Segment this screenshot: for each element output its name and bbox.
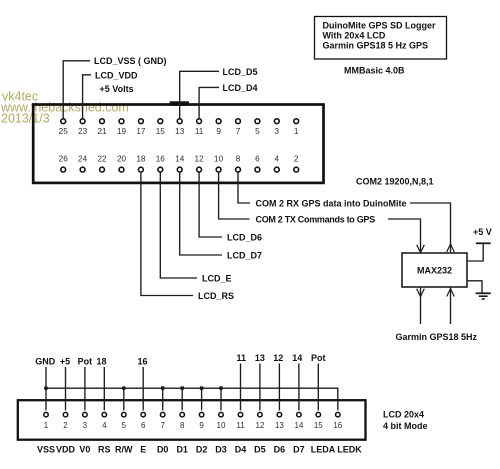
J1 pin number 16 <box>156 155 166 164</box>
J1 pin 22 pad <box>100 167 105 172</box>
J2 pin number 5 <box>122 421 127 430</box>
svg-text:LCD_D7: LCD_D7 <box>227 250 262 260</box>
svg-text:D4: D4 <box>235 445 247 455</box>
svg-text:LCD_D6: LCD_D6 <box>227 232 262 242</box>
junction dot at J2 pin8 (D1) <box>181 386 184 389</box>
junction dot at J2 pin1 <box>44 386 48 390</box>
label 18 (J2 pin 4) <box>96 356 106 366</box>
label V0 (J2 pin 3) <box>79 445 90 455</box>
J2 pin 5 pad <box>122 412 127 417</box>
title box <box>315 17 447 60</box>
J1 pin number 10 <box>214 155 224 164</box>
J1 pin 17 pad <box>139 119 144 124</box>
svg-text:7: 7 <box>236 127 241 136</box>
svg-text:Garmin GPS18 5Hz: Garmin GPS18 5Hz <box>396 332 478 342</box>
label 13 (J2 pin 12) <box>255 353 265 363</box>
wire label 13 to J2 pin 12 <box>259 364 261 411</box>
J2 pin 15 pad <box>316 412 321 417</box>
J2 pin 9 pad <box>199 412 204 417</box>
label MMBasic 4.0B <box>344 66 405 76</box>
J2 pin 2 pad <box>63 412 68 417</box>
label LEDK (J2 pin 16) <box>337 445 362 455</box>
wire J1 pin13 to LCD_D5 label <box>180 71 219 118</box>
connector J2 (LCD 20x4 16-pin) body <box>18 400 366 440</box>
J1 pin 15 pad <box>158 119 163 124</box>
label D7 (J2 pin 14) <box>293 445 305 455</box>
svg-text:+5 V: +5 V <box>473 227 492 237</box>
wire label GND to J2 pin 1 <box>45 367 47 410</box>
label LCD_D5 <box>223 67 258 77</box>
wire label 18 to J2 pin 4 <box>103 367 105 410</box>
svg-text:Pot: Pot <box>78 356 93 366</box>
label LCD_D6 <box>227 232 262 242</box>
J1 pin number 25 <box>59 127 69 136</box>
svg-text:1: 1 <box>294 127 299 136</box>
title text line 3 <box>323 41 429 51</box>
svg-text:Pot: Pot <box>311 353 326 363</box>
label LCD_VSS ( GND) <box>94 56 167 66</box>
arrowhead up (RX from GPS) <box>447 289 455 297</box>
J1 pin 21 pad <box>100 119 105 124</box>
J1 pin number 12 <box>195 155 205 164</box>
label E (J2 pin 6) <box>140 445 146 455</box>
svg-text:8: 8 <box>180 421 185 430</box>
svg-text:6: 6 <box>141 421 146 430</box>
label LCD_D7 <box>227 250 262 260</box>
svg-text:9: 9 <box>199 421 204 430</box>
J2 pin 4 pad <box>102 412 107 417</box>
arrowhead down (TX to GPS) <box>417 289 425 297</box>
svg-text:14: 14 <box>175 155 185 164</box>
label D3 (J2 pin 10) <box>215 445 227 455</box>
wire GPS data into MAX232 (up) <box>450 287 452 324</box>
svg-text:9: 9 <box>216 127 221 136</box>
wire label +5 to J2 pin 2 <box>65 367 67 410</box>
junction dot at J2 pin7 (D0) <box>161 386 164 389</box>
J1 pin number 18 <box>136 155 146 164</box>
label GND (J2 pin 1) <box>35 356 56 366</box>
J1 pin number 23 <box>78 127 88 136</box>
J1 pin number 15 <box>156 127 166 136</box>
J1 pin 18 pad <box>139 167 144 172</box>
svg-text:RS: RS <box>98 445 111 455</box>
wire J1 pin18 to LCD_RS label <box>141 172 193 295</box>
J1 pin number 19 <box>117 127 127 136</box>
wire J2 pin7 D0 to GND bus <box>162 388 164 410</box>
J1 pin number 1 <box>294 127 299 136</box>
arrowhead up (RX into DuinoMite) <box>447 244 455 252</box>
wire J2 pin10 D3 to GND bus <box>220 388 222 410</box>
svg-text:4 bit Mode: 4 bit Mode <box>383 421 428 431</box>
J1 pin 11 pad <box>197 119 202 124</box>
svg-text:15: 15 <box>156 127 166 136</box>
J2 pin number 6 <box>141 421 146 430</box>
junction dot at J2 pin9 (D2) <box>200 386 203 389</box>
J2 pin number 9 <box>199 421 204 430</box>
svg-text:6: 6 <box>255 155 260 164</box>
svg-text:15: 15 <box>314 421 323 430</box>
svg-text:D6: D6 <box>274 445 286 455</box>
label LCD_RS <box>198 291 234 301</box>
svg-text:DuinoMite GPS SD Logger: DuinoMite GPS SD Logger <box>323 21 436 31</box>
J1 pin number 17 <box>136 127 146 136</box>
J1 pin number 24 <box>78 155 88 164</box>
label D0 (J2 pin 7) <box>157 445 169 455</box>
label D5 (J2 pin 12) <box>254 445 266 455</box>
wire GND bus (pin1,R/W,D0-D3,LEDK) <box>46 388 338 410</box>
label 16 (J2 pin 6) <box>137 356 147 366</box>
J2 pin number 12 <box>255 421 264 430</box>
svg-text:4: 4 <box>275 155 280 164</box>
label D1 (J2 pin 8) <box>176 445 188 455</box>
svg-text:D1: D1 <box>176 445 188 455</box>
wire J2 pin8 D1 to GND bus <box>181 388 183 410</box>
label LEDA (J2 pin 15) <box>311 445 336 455</box>
svg-text:LCD 20x4: LCD 20x4 <box>383 410 424 420</box>
svg-text:3: 3 <box>275 127 280 136</box>
svg-text:18: 18 <box>96 356 106 366</box>
J1 pin 20 pad <box>119 167 124 172</box>
svg-text:12: 12 <box>273 353 283 363</box>
label VDD (J2 pin 2) <box>56 445 76 455</box>
svg-text:D2: D2 <box>196 445 208 455</box>
watermark line 3 (2013/1/3) <box>1 112 50 126</box>
wire label 12 to J2 pin 13 <box>278 364 280 411</box>
wire J1 pin16 to LCD_E label <box>160 172 197 278</box>
J2 pin number 4 <box>102 421 107 430</box>
connector J1 pin-13 key notch <box>170 101 189 106</box>
svg-text:LCD_VDD: LCD_VDD <box>95 70 138 80</box>
wire J1 pin25 to LCD_VSS label <box>63 61 90 119</box>
J2 pin 3 pad <box>83 412 88 417</box>
svg-text:21: 21 <box>97 127 107 136</box>
svg-text:MAX232: MAX232 <box>417 266 452 276</box>
wire label Pot to J2 pin 3 <box>84 367 86 410</box>
arrowhead down (TX into MAX232) <box>417 245 425 253</box>
wire COM2 RX net to MAX232 pin (R1OUT) <box>410 203 451 252</box>
J2 pin number 2 <box>63 421 68 430</box>
wire J2 pin5 R/W to GND bus <box>123 388 125 410</box>
J1 pin 23 pad <box>80 119 85 124</box>
label Pot (J2 pin 15) <box>311 353 326 363</box>
svg-text:13: 13 <box>275 421 284 430</box>
J1 pin number 13 <box>175 127 185 136</box>
label MAX232 <box>417 266 452 276</box>
svg-text:1: 1 <box>44 421 49 430</box>
J1 pin 1 pad <box>294 119 299 124</box>
J1 pin 9 pad <box>216 119 221 124</box>
wire J2 pin9 D2 to GND bus <box>201 388 203 410</box>
svg-text:18: 18 <box>136 155 146 164</box>
J1 pin number 7 <box>236 127 241 136</box>
J2 pin 8 pad <box>180 412 185 417</box>
svg-text:12: 12 <box>195 155 205 164</box>
J1 pin number 20 <box>117 155 127 164</box>
svg-text:3: 3 <box>83 421 88 430</box>
watermark line 1 (vk4tec) <box>2 90 38 104</box>
svg-text:22: 22 <box>97 155 107 164</box>
J1 pin 10 pad <box>216 167 221 172</box>
J1 pin 19 pad <box>119 119 124 124</box>
svg-text:16: 16 <box>137 356 147 366</box>
J2 pin number 14 <box>294 421 303 430</box>
svg-text:COM 2 TX Commands to GPS: COM 2 TX Commands to GPS <box>256 214 376 224</box>
svg-text:16: 16 <box>333 421 342 430</box>
label +5 Volts <box>100 84 134 94</box>
svg-text:COM 2 RX GPS data into DuinoMi: COM 2 RX GPS data into DuinoMite <box>256 198 407 208</box>
svg-text:16: 16 <box>156 155 166 164</box>
J1 pin 12 pad <box>197 167 202 172</box>
J2 pin 1 pad <box>44 412 49 417</box>
svg-text:8: 8 <box>236 155 241 164</box>
label +5 V <box>473 227 492 237</box>
label Pot (J2 pin 3) <box>78 356 93 366</box>
J1 pin number 6 <box>255 155 260 164</box>
label +5 (J2 pin 2) <box>60 356 70 366</box>
svg-text:20: 20 <box>117 155 127 164</box>
connector J1 (DuinoMite 26-pin) body <box>33 105 323 183</box>
J2 pin number 16 <box>333 421 342 430</box>
J2 pin number 11 <box>236 421 245 430</box>
label 14 (J2 pin 14) <box>292 353 302 363</box>
svg-text:MMBasic 4.0B: MMBasic 4.0B <box>344 66 405 76</box>
J1 pin number 4 <box>275 155 280 164</box>
J1 pin number 2 <box>294 155 299 164</box>
J1 pin number 14 <box>175 155 185 164</box>
label VSS (J2 pin 1) <box>37 445 55 455</box>
svg-text:VDD: VDD <box>56 445 76 455</box>
wire MAX232 to GPS TX (down) <box>420 287 422 324</box>
label LCD 20x4 <box>383 410 424 420</box>
J1 pin number 9 <box>216 127 221 136</box>
svg-text:24: 24 <box>78 155 88 164</box>
J2 pin 16 pad <box>336 412 341 417</box>
J2 pin number 1 <box>44 421 49 430</box>
wire +5V to MAX232 <box>467 243 483 261</box>
svg-text:D7: D7 <box>293 445 305 455</box>
label D4 (J2 pin 11) <box>235 445 247 455</box>
IC U1 MAX232 body <box>402 253 467 287</box>
label LCD_VDD <box>95 70 138 80</box>
J2 pin number 8 <box>180 421 185 430</box>
J1 pin 14 pad <box>177 167 182 172</box>
wire J1 pin23 to LCD_VDD label <box>83 75 91 119</box>
svg-text:LCD_RS: LCD_RS <box>198 291 234 301</box>
wire label 16 to J2 pin 6 <box>142 367 144 410</box>
J2 pin number 3 <box>83 421 88 430</box>
power rail +5V bar <box>476 242 491 244</box>
svg-text:2: 2 <box>63 421 68 430</box>
J2 pin 6 pad <box>141 412 146 417</box>
J1 pin number 8 <box>236 155 241 164</box>
J1 pin 8 pad <box>236 167 241 172</box>
junction dot at J2 pin10 (D3) <box>219 386 222 389</box>
J2 pin 12 pad <box>258 412 263 417</box>
svg-text:LCD_E: LCD_E <box>202 273 232 283</box>
J1 pin 16 pad <box>158 167 163 172</box>
J1 pin number 21 <box>97 127 107 136</box>
J1 pin number 26 <box>59 155 69 164</box>
svg-text:13: 13 <box>175 127 185 136</box>
J2 pin 7 pad <box>160 412 165 417</box>
svg-text:D0: D0 <box>157 445 169 455</box>
J1 pin 24 pad <box>80 167 85 172</box>
wire J1 pin12 to LCD_D6 label <box>199 172 222 237</box>
svg-text:2: 2 <box>294 155 299 164</box>
wire label 14 to J2 pin 14 <box>298 364 300 411</box>
svg-text:19: 19 <box>117 127 127 136</box>
wire COM2 TX net to MAX232 pin (T1IN) <box>388 219 421 252</box>
J2 pin number 7 <box>160 421 165 430</box>
J1 pin 7 pad <box>236 119 241 124</box>
J1 pin 26 pad <box>61 167 66 172</box>
J2 pin 14 pad <box>297 412 302 417</box>
wire J1 pin11 to LCD_D4 label <box>199 87 219 118</box>
label Garmin GPS18 5Hz <box>396 332 478 342</box>
J1 pin 4 pad <box>274 167 279 172</box>
J1 pin 5 pad <box>255 119 260 124</box>
svg-text:11: 11 <box>195 127 204 136</box>
label D2 (J2 pin 9) <box>196 445 208 455</box>
wire J1 pin14 to LCD_D7 label <box>180 172 222 255</box>
J2 pin 11 pad <box>238 412 243 417</box>
J1 pin 3 pad <box>274 119 279 124</box>
svg-text:R/W: R/W <box>115 445 133 455</box>
ground symbol <box>476 293 491 299</box>
J2 pin number 13 <box>275 421 284 430</box>
watermark line 2 (www.thebackshed.com) <box>0 101 129 115</box>
wire label 11 to J2 pin 11 <box>240 364 242 411</box>
svg-text:4: 4 <box>102 421 107 430</box>
label COM2 19200,N,8,1 <box>356 176 434 186</box>
label LCD_E <box>202 273 232 283</box>
svg-text:VSS: VSS <box>37 445 55 455</box>
label R/W (J2 pin 5) <box>115 445 133 455</box>
J1 pin 2 pad <box>294 167 299 172</box>
svg-text:13: 13 <box>255 353 265 363</box>
J1 pin 6 pad <box>255 167 260 172</box>
wire J1 pin10 to COM2 TX net <box>219 172 250 219</box>
svg-text:2013/1/3: 2013/1/3 <box>1 112 50 126</box>
svg-text:LEDK: LEDK <box>337 445 362 455</box>
wire J1 pin8 to COM2 RX net <box>238 172 250 203</box>
svg-text:LCD_D5: LCD_D5 <box>223 67 258 77</box>
svg-text:11: 11 <box>237 353 247 363</box>
J2 pin number 10 <box>217 421 226 430</box>
svg-text:14: 14 <box>292 353 302 363</box>
J2 pin 13 pad <box>277 412 282 417</box>
J1 pin number 22 <box>97 155 107 164</box>
wire label Pot to J2 pin 15 <box>317 364 319 411</box>
J1 pin 13 pad <box>177 119 182 124</box>
svg-text:GND: GND <box>35 356 56 366</box>
J1 pin 25 pad <box>61 119 66 124</box>
svg-text:26: 26 <box>59 155 69 164</box>
svg-text:10: 10 <box>214 155 224 164</box>
svg-text:5: 5 <box>255 127 260 136</box>
svg-text:14: 14 <box>294 421 303 430</box>
J1 pin number 5 <box>255 127 260 136</box>
J2 pin 10 pad <box>219 412 224 417</box>
svg-text:10: 10 <box>217 421 226 430</box>
svg-text:LEDA: LEDA <box>311 445 336 455</box>
J1 pin number 11 <box>195 127 204 136</box>
label 12 (J2 pin 13) <box>273 353 283 363</box>
svg-text:+5: +5 <box>60 356 70 366</box>
svg-text:Garmin GPS18 5 Hz GPS: Garmin GPS18 5 Hz GPS <box>323 41 429 51</box>
svg-text:11: 11 <box>236 421 245 430</box>
svg-text:D5: D5 <box>254 445 266 455</box>
label RS (J2 pin 4) <box>98 445 111 455</box>
svg-text:+5 Volts: +5 Volts <box>100 84 134 94</box>
svg-text:COM2 19200,N,8,1: COM2 19200,N,8,1 <box>356 176 434 186</box>
wire MAX232 to ground <box>467 281 482 293</box>
svg-text:LCD_D4: LCD_D4 <box>223 83 258 93</box>
svg-text:17: 17 <box>136 127 146 136</box>
label COM 2 TX Commands to GPS <box>256 214 376 224</box>
svg-text:E: E <box>140 445 146 455</box>
svg-text:V0: V0 <box>79 445 90 455</box>
label 4 bit Mode <box>383 421 428 431</box>
junction dot at J2 pin5 (R/W) <box>122 386 126 390</box>
svg-text:7: 7 <box>160 421 165 430</box>
title text line 2 <box>323 31 386 41</box>
label 11 (J2 pin 11) <box>237 353 247 363</box>
svg-text:With 20x4 LCD: With 20x4 LCD <box>323 31 386 41</box>
label D6 (J2 pin 13) <box>274 445 286 455</box>
label COM 2 RX GPS data into DuinoMite <box>256 198 407 208</box>
svg-text:5: 5 <box>122 421 127 430</box>
svg-text:12: 12 <box>255 421 264 430</box>
J1 pin number 3 <box>275 127 280 136</box>
svg-text:25: 25 <box>59 127 69 136</box>
svg-text:D3: D3 <box>215 445 227 455</box>
title text line 1 <box>323 21 436 31</box>
svg-text:LCD_VSS ( GND): LCD_VSS ( GND) <box>94 56 167 66</box>
svg-text:23: 23 <box>78 127 88 136</box>
label LCD_D4 <box>223 83 258 93</box>
J2 pin number 15 <box>314 421 323 430</box>
